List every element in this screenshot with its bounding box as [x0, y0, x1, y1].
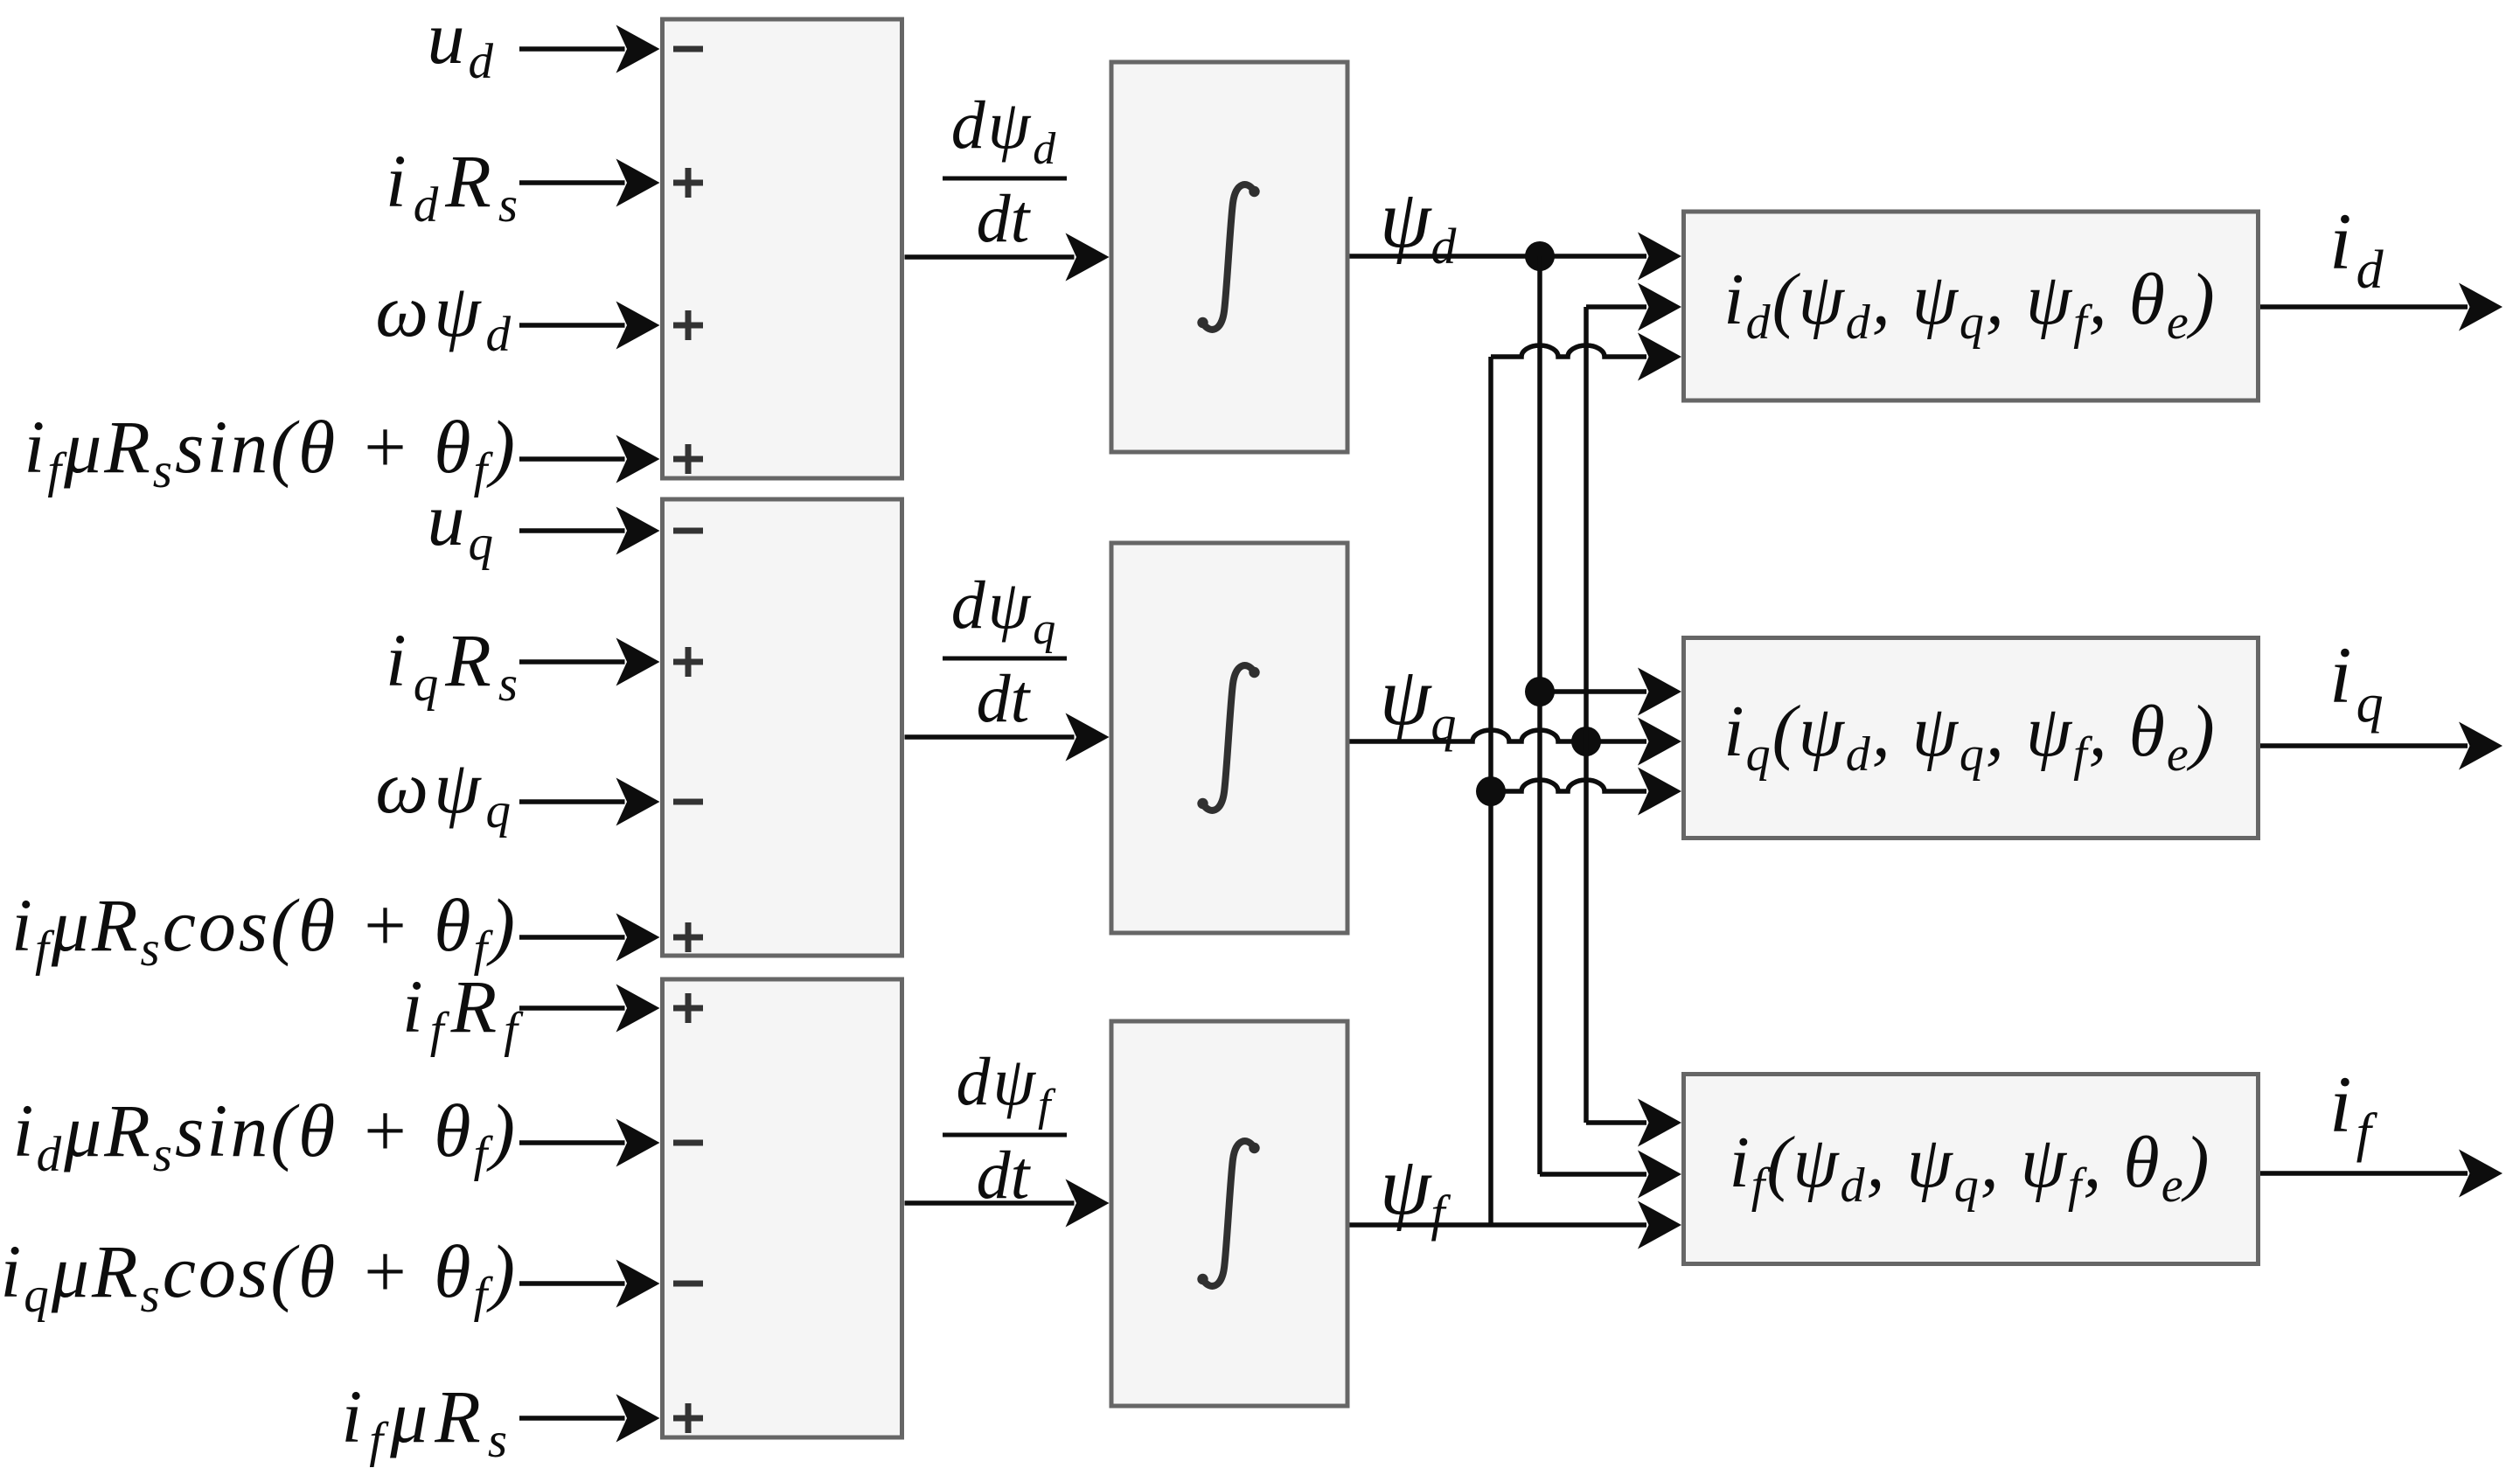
wire: output i_d — [2260, 304, 2468, 310]
wire: input arrow for idμRssin(θ + θf) — [519, 1140, 625, 1145]
wire: psi_q from INT2 to F2 (middle input) — [1350, 730, 1647, 741]
wire: input arrow for ωψq — [519, 799, 625, 804]
sign + at summing input — [673, 1416, 703, 1422]
svg-text:ifμRscos(θ + θf): ifμRscos(θ + θf) — [11, 883, 518, 977]
function block F3: i_f(psi_d,psi_q,psi_f,theta_e) — [1684, 1075, 2259, 1264]
svg-text:dt: dt — [977, 660, 1032, 736]
wire: output i_f — [2260, 1171, 2468, 1176]
wire: psi_q elbow to F3 top input — [1586, 1120, 1646, 1125]
wire: input arrow for iqRs — [519, 659, 625, 664]
sign + at summing input — [673, 456, 703, 463]
wire: input arrow for uq — [519, 528, 625, 533]
wire: input arrow for ifμRscos(θ + θf) — [519, 935, 625, 940]
node: junction dot psi_d to F2 — [1525, 677, 1555, 706]
integrator block INT2 — [1111, 543, 1347, 933]
svg-text:dt: dt — [977, 1137, 1032, 1213]
wire: psi_d from INT1 to F1 (top input) — [1350, 254, 1647, 259]
wire: input arrow for ωψd — [519, 323, 625, 328]
wire: output i_q — [2260, 743, 2468, 748]
summing block S3 (field) — [663, 979, 902, 1437]
sign + at summing input — [673, 180, 703, 186]
wire: input arrow for iqμRscos(θ + θf) — [519, 1281, 625, 1286]
integral sign of INT1 — [1203, 184, 1254, 330]
wire: d(psi)/dt from S2 to INT2 — [905, 734, 1075, 740]
sign + at summing input — [673, 1005, 703, 1012]
wire: input arrow for idRs — [519, 180, 625, 185]
summing block S2 (q-axis) — [663, 499, 902, 956]
wire: psi_q vertical bus — [1584, 307, 1589, 1123]
sign - at summing input — [673, 528, 703, 534]
node: junction dot psi_f to F2 — [1476, 776, 1506, 806]
sign + at summing input — [673, 935, 703, 941]
wire: input arrow for ud — [519, 46, 625, 52]
wire: psi_q elbow to F1 middle input — [1586, 304, 1646, 310]
svg-text:dt: dt — [977, 180, 1032, 256]
function block F1: i_d(psi_d,psi_q,psi_f,theta_e) — [1684, 212, 2259, 400]
integral sign of INT2 — [1203, 665, 1254, 811]
svg-text:iqμRscos(θ + θf): iqμRscos(θ + θf) — [0, 1229, 518, 1323]
sign - at summing input — [673, 1281, 703, 1287]
wire: psi_f elbow to F1 bottom input (hops) — [1491, 345, 1646, 357]
wire: input arrow for ifμRssin(θ + θf) — [519, 456, 625, 462]
wire: psi_f branch to F2 bottom input (hops) — [1491, 780, 1646, 791]
wire: psi_d elbow to F3 middle input — [1540, 1172, 1646, 1177]
wire: input arrow for ifμRs — [519, 1416, 625, 1421]
wire: psi_f vertical bus — [1488, 357, 1493, 1225]
summing block S1 (d-axis) — [663, 19, 902, 478]
function block F2: i_q(psi_d,psi_q,psi_f,theta_e) — [1684, 638, 2259, 838]
wire: psi_f from INT3 to F3 (bottom input) — [1350, 1222, 1647, 1228]
node: junction dot psi_d — [1525, 241, 1555, 271]
sign + at summing input — [673, 323, 703, 329]
svg-text:idμRssin(θ + θf): idμRssin(θ + θf) — [13, 1089, 518, 1182]
node: junction dot psi_q — [1571, 727, 1601, 756]
wire: input arrow for ifRf — [519, 1005, 625, 1011]
integrator block INT3 — [1111, 1021, 1347, 1406]
wire: d(psi)/dt from S1 to INT1 — [905, 254, 1075, 260]
sign - at summing input — [673, 1140, 703, 1146]
wire: psi_d vertical bus — [1537, 256, 1542, 1174]
integrator block INT1 — [1111, 62, 1347, 452]
integral sign of INT3 — [1203, 1141, 1254, 1286]
sign - at summing input — [673, 799, 703, 805]
sign + at summing input — [673, 659, 703, 665]
sign - at summing input — [673, 46, 703, 52]
wire: d(psi)/dt from S3 to INT3 — [905, 1200, 1075, 1206]
wire: psi_d branch to F2 top input — [1540, 689, 1646, 694]
